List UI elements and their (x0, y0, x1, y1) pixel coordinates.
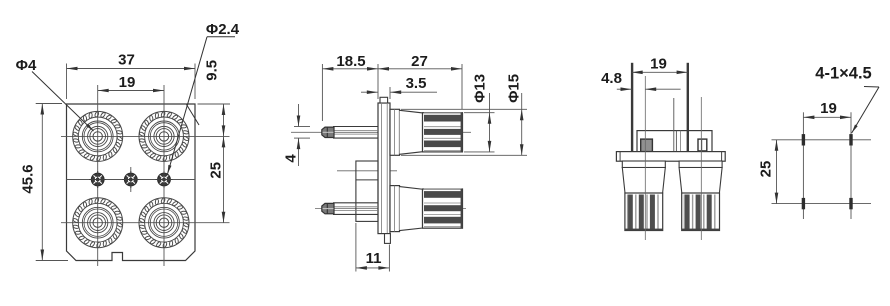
top view: right solder pin (687, 63, 689, 152)
dimension 3.5 (panel thickness) (361, 75, 437, 99)
dimension 19 (hole spacing horizontal) (803, 100, 851, 119)
label 4-1x4.5 with leader to top-right hole (815, 65, 879, 134)
svg-text:37: 37 (118, 52, 135, 69)
dimension 9.5 (top edge to first row) (198, 60, 231, 137)
dimension 25 (row spacing, front view) (208, 136, 226, 222)
svg-text:Φ15: Φ15 (505, 74, 522, 103)
front view: centerline bottom row (61, 222, 230, 224)
svg-text:27: 27 (411, 53, 428, 70)
side view: axis centerline middle lug (337, 170, 397, 172)
top view: left post body (622, 161, 665, 231)
svg-text:25: 25 (208, 162, 225, 179)
side view: axis centerline top post (291, 131, 471, 133)
hole pattern: vertical centerline right (850, 112, 852, 219)
small terminal nut middle (phi2.4) (122, 171, 139, 188)
binding post front view bottom-right (139, 197, 189, 248)
side view: bottom post body (390, 186, 463, 232)
top view: housing block (637, 98, 712, 152)
side view: panel bottom tab (385, 234, 391, 244)
dimension 25 (hole spacing vertical) (758, 140, 779, 204)
binding post front view top-right (139, 111, 189, 162)
hole pattern: horizontal centerline top (772, 139, 872, 141)
front view: centerline top row (61, 135, 230, 137)
top view: right terminal square (698, 139, 707, 151)
dimension 4 (pin diameter) (282, 104, 310, 166)
svg-text:3.5: 3.5 (406, 75, 427, 92)
top view: axis centerline left post (644, 76, 646, 240)
dimension 27 (body length) (378, 53, 462, 109)
binding post front view bottom-left (73, 197, 123, 248)
dimension 19 (post spacing horizontal) (98, 74, 164, 92)
svg-text:19: 19 (820, 100, 837, 117)
top view: axis centerline right post (700, 97, 702, 240)
side view: top post pin (threaded stud) (322, 127, 378, 139)
top view: left terminal square (641, 139, 653, 152)
side view: top post body (390, 109, 463, 155)
dimension 11 (housing depth) (356, 223, 390, 272)
dimension 45.6 (panel height) (20, 104, 69, 261)
front view: centerline middle row (67, 179, 196, 181)
top view: left solder pin (631, 63, 633, 152)
svg-text:25: 25 (758, 161, 775, 178)
small terminal nut left (phi2.4) (89, 171, 106, 188)
svg-text:9.5: 9.5 (203, 60, 220, 81)
small terminal nut right (phi2.4) (156, 171, 173, 188)
svg-text:18.5: 18.5 (336, 53, 365, 70)
side view: mounting panel flange (378, 103, 390, 234)
svg-text:45.6: 45.6 (20, 164, 37, 193)
dimension 19 (pin spacing, top view) (632, 56, 688, 75)
svg-text:11: 11 (366, 250, 382, 267)
mounting hole mark 2 (849, 134, 852, 145)
mounting hole mark 3 (802, 198, 805, 209)
side view: axis centerline bottom post (315, 208, 466, 210)
side view: bottom post pin (threaded stud) (322, 203, 378, 215)
label phi4 with leader to jack hole (16, 57, 94, 131)
hole pattern: horizontal centerline bottom (772, 203, 872, 205)
dimension 4.8 (pin offset) (601, 70, 681, 91)
top view: flange plate (616, 152, 725, 162)
front view: vertical centerline middle (130, 167, 132, 192)
top view: right post body (679, 161, 722, 231)
svg-text:19: 19 (650, 56, 667, 73)
svg-text:Φ4: Φ4 (16, 57, 37, 74)
front view: vertical centerline right column (163, 85, 165, 266)
svg-text:4.8: 4.8 (601, 70, 622, 87)
dimension phi15 (disc diameter) (401, 74, 527, 155)
mounting hole mark 4 (849, 198, 852, 209)
svg-text:4: 4 (282, 154, 299, 163)
side view: panel top tab (380, 97, 388, 103)
label phi2.4 with leader to small nut (168, 21, 240, 174)
side view: rear housing block (356, 161, 378, 221)
svg-text:Φ13: Φ13 (471, 74, 488, 103)
dimension 37 (panel width) (67, 52, 196, 100)
svg-text:Φ2.4: Φ2.4 (206, 21, 240, 38)
dimension phi13 (cap diameter) (464, 74, 495, 152)
front view: panel outline (67, 104, 196, 261)
svg-text:4-1×4.5: 4-1×4.5 (815, 65, 871, 83)
svg-text:19: 19 (119, 74, 136, 91)
front view: vertical centerline left column (97, 85, 99, 266)
binding post front view top-left (73, 111, 123, 162)
hole pattern: vertical centerline left (802, 112, 804, 219)
mounting hole mark 1 (802, 134, 805, 145)
dimension 18.5 (pin length) (322, 53, 378, 121)
